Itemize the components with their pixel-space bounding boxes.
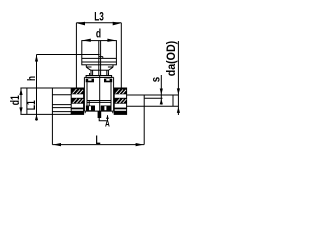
body top right dark detail: [104, 79, 112, 83]
skirt left slant: [86, 67, 91, 70]
dimension h top extension to knob center: [37, 54, 100, 56]
knob stem step line: [99, 56, 103, 58]
dimension d1 top arrow: [19, 88, 22, 95]
svg-text:h: h: [26, 76, 38, 81]
knob stem step riser: [102, 57, 104, 59]
body bottom right lip: [112, 111, 114, 113]
dimension s vertical line: [160, 75, 162, 105]
right tube end cap: [172, 95, 174, 106]
knob internal line upper: [82, 57, 117, 59]
bottom drain stem: [98, 112, 102, 119]
dimension d1 bottom arrow: [19, 107, 22, 114]
right tube top line: [127, 94, 179, 96]
left nut outline: [71, 88, 83, 114]
dimension h bottom arrow: [35, 114, 38, 120]
right nut thin band: [114, 108, 126, 110]
body groove left dark: [86, 106, 95, 111]
left tube outer bottom edge: [20, 113, 71, 115]
left nut thin band: [71, 108, 83, 110]
dimension L3 right arrow: [113, 22, 121, 26]
dimension L left arrow: [53, 143, 61, 146]
stem block: [91, 70, 108, 75]
left tube outer top edge: [20, 87, 71, 89]
body groove right white slot: [104, 106, 106, 110]
dimension L left extension: [51, 88, 53, 145]
body bottom edge: [84, 110, 113, 112]
body top left white slot: [88, 79, 91, 81]
right nut knurl mid band: [114, 98, 126, 104]
stem block inner wall right: [106, 70, 108, 75]
svg-text:s: s: [151, 77, 163, 82]
left nut knurl mid band: [71, 98, 83, 104]
svg-text:d: d: [96, 27, 101, 41]
dimension da bottom arrow: [177, 107, 180, 113]
right tube wall stub line: [145, 97, 163, 99]
left nut bottom band: [71, 111, 83, 115]
body inner wall left: [86, 82, 88, 111]
label A arrow shaft: [107, 115, 109, 120]
dimension d left arrow on knob top: [82, 39, 91, 42]
svg-text:A: A: [105, 118, 110, 128]
dimension L3 left extension: [75, 23, 77, 89]
dimension s bottom arrow: [160, 99, 163, 105]
right nut outline: [114, 88, 126, 114]
svg-text:d1: d1: [10, 95, 22, 105]
knob internal line lower: [82, 61, 117, 63]
body groove right dark: [101, 106, 111, 111]
skirt left vertical: [85, 65, 87, 67]
label A leader line: [99, 118, 106, 121]
body internal line 2: [87, 101, 111, 103]
dimension s top arrow: [160, 89, 163, 95]
dimension da top arrow: [177, 88, 180, 94]
body inner wall right: [110, 82, 112, 111]
svg-text:da(OD): da(OD): [166, 41, 178, 77]
left tube inner step line 2: [52, 111, 71, 113]
valve knob outline: [82, 41, 117, 65]
skirt right vertical: [112, 65, 114, 67]
dimension L3 left arrow: [77, 22, 85, 26]
left nut knurl speckles: [73, 89, 84, 103]
dimension L right extension: [143, 95, 145, 145]
dimension L3 right extension: [120, 23, 122, 90]
body top right white slot: [106, 79, 109, 81]
stem block inner wall left: [92, 70, 94, 75]
skirt dark line right: [108, 66, 113, 68]
dimension d1 vertical line: [20, 88, 22, 114]
left tube end cap: [26, 88, 28, 114]
dimension h top arrow: [35, 55, 38, 62]
valve body right edge: [113, 77, 115, 111]
svg-text:L: L: [96, 135, 101, 147]
right tube bottom line: [127, 105, 179, 107]
dimension da(OD) vertical line: [177, 41, 179, 115]
dimension L line: [52, 144, 144, 146]
right nut knurl top band: [114, 88, 126, 94]
body internal line 1: [87, 100, 111, 102]
stem flange riser right: [108, 73, 110, 76]
body bottom left lip: [84, 111, 86, 113]
valve body left edge: [83, 77, 85, 111]
stem flange riser left: [89, 73, 91, 76]
body center line: [99, 76, 101, 112]
label A arrow head: [106, 115, 109, 119]
dimension L right arrow: [136, 143, 144, 146]
dimension L3 line: [76, 22, 121, 24]
stem flange: [86, 76, 112, 78]
body groove left white slot: [89, 106, 91, 110]
right nut knurl speckles: [116, 89, 127, 103]
left nut knurl top band: [71, 88, 83, 94]
knob center stem line right: [100, 41, 102, 76]
dimension d right arrow on knob top: [107, 39, 116, 42]
body top left dark detail: [86, 79, 94, 83]
left tube inner step line 1: [52, 107, 71, 109]
left tube inner top line: [52, 94, 71, 96]
left tube inner bottom line: [52, 104, 71, 106]
right nut bottom band: [114, 111, 126, 115]
body top edge: [84, 76, 113, 78]
dimension h vertical line with tail: [36, 55, 38, 121]
skirt right slant: [108, 67, 113, 70]
skirt dark line left: [86, 66, 91, 68]
body internal vertical: [88, 101, 90, 112]
svg-text:L1: L1: [26, 100, 38, 110]
knob center stem line left: [98, 41, 100, 76]
svg-text:L3: L3: [94, 12, 104, 24]
